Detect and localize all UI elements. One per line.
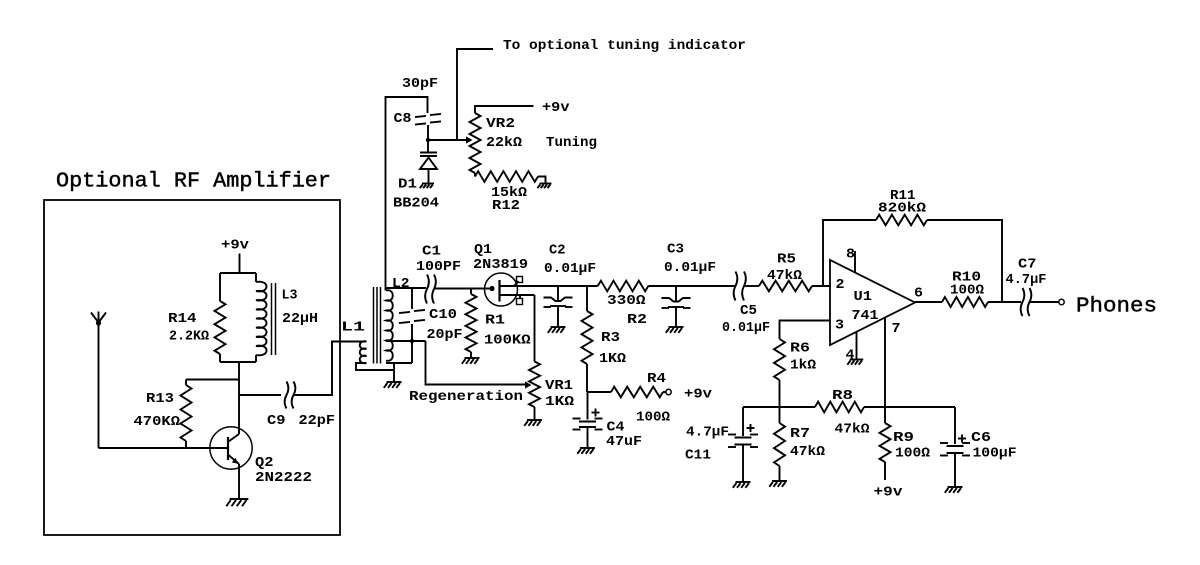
potentiometer VR1 [529, 362, 540, 421]
resistor R7 [774, 407, 785, 481]
ground R1 [462, 358, 480, 364]
svg-text:2: 2 [836, 277, 845, 293]
label +9v (R9) [874, 485, 904, 501]
svg-text:C3: C3 [667, 242, 684, 258]
resistor R2 [598, 281, 649, 292]
svg-text:U1: U1 [854, 289, 873, 305]
svg-text:4.7µF: 4.7µF [686, 425, 729, 441]
resistor R9 [880, 407, 891, 480]
wire Q1 source to VR1 [534, 295, 536, 362]
resistor R12 [475, 171, 546, 183]
label Regeneration [409, 389, 523, 405]
diode D1 BB204 [420, 140, 437, 183]
wire bottom rail left [743, 406, 815, 408]
wire L2 bottom [386, 362, 412, 364]
label 0.01uF (C2) [544, 261, 596, 277]
wire C8 top loop [386, 97, 428, 291]
label 100 ohm (R10) [950, 283, 985, 299]
label C4 [607, 420, 625, 436]
wire C9 to L1 [294, 342, 367, 396]
transistor Q2 [210, 427, 252, 499]
transistor Q1 2N3819 [485, 273, 535, 306]
svg-text:R7: R7 [790, 426, 810, 442]
label R14 [168, 311, 197, 327]
svg-text:30pF: 30pF [402, 76, 438, 92]
svg-text:R12: R12 [492, 198, 520, 214]
label L1 [341, 320, 365, 336]
svg-text:R8: R8 [832, 388, 853, 404]
label 2N2222 [255, 470, 312, 486]
resistor R1 [466, 289, 477, 359]
svg-text:R5: R5 [777, 252, 796, 268]
label C3 [667, 242, 684, 258]
label 2N3819 [473, 257, 528, 273]
ground pin4 [847, 360, 863, 365]
svg-text:6: 6 [914, 286, 923, 302]
svg-text:R13: R13 [146, 391, 174, 407]
svg-text:470KΩ: 470KΩ [134, 414, 181, 430]
label 47k ohm (R8) [835, 422, 871, 438]
wire C1 to gate [434, 288, 491, 290]
svg-text:2N3819: 2N3819 [473, 257, 528, 273]
ground C6 [945, 487, 963, 493]
svg-text:47kΩ: 47kΩ [767, 268, 803, 284]
svg-text:7: 7 [892, 321, 901, 337]
capacitor C4 [573, 392, 603, 448]
svg-text:VR2: VR2 [486, 116, 515, 132]
wire collector to C9 [239, 394, 281, 396]
label +9v (R4) [684, 387, 713, 403]
wire to tuning indicator [457, 49, 493, 140]
ground L2 [384, 382, 402, 388]
label 0.01uF (C3) [664, 260, 716, 276]
svg-text:Q1: Q1 [474, 242, 492, 258]
label 22pF [299, 413, 336, 429]
label 820k ohm [878, 201, 927, 217]
svg-text:L2: L2 [392, 276, 410, 292]
svg-text:47kΩ: 47kΩ [835, 422, 871, 438]
resistor R5 [759, 281, 812, 292]
label C8 [394, 111, 412, 127]
pin 7 wire [884, 318, 886, 408]
svg-text:2.2KΩ: 2.2KΩ [169, 329, 210, 345]
wire C7 to phones [1030, 299, 1064, 304]
optional RF amplifier enclosure box [44, 200, 340, 535]
svg-text:741: 741 [852, 308, 879, 324]
label Phones [1076, 295, 1157, 319]
svg-text:1kΩ: 1kΩ [790, 358, 817, 374]
wire L2 to C1 [386, 287, 427, 289]
ground C3 [666, 327, 684, 333]
ground C4 [577, 448, 595, 454]
label R7 [790, 426, 810, 442]
label 15k ohm [491, 185, 528, 201]
label R9 [893, 430, 914, 446]
svg-text:C1: C1 [422, 244, 441, 260]
ground VR1 [524, 420, 542, 426]
svg-text:100Ω: 100Ω [895, 446, 931, 462]
node C8/D1/VR2 [426, 136, 473, 143]
label C6 [971, 430, 991, 446]
inductor L3 [256, 273, 267, 362]
label 100K ohm [484, 333, 531, 349]
label Q2 [255, 455, 274, 471]
wire collector drop [238, 362, 240, 434]
label 1K ohm (VR1) [545, 394, 575, 410]
label 47k ohm (R7) [790, 444, 826, 460]
svg-text:1KΩ: 1KΩ [545, 394, 575, 410]
capacitor C6 [940, 407, 970, 487]
svg-text:100PF: 100PF [416, 259, 461, 275]
svg-text:R14: R14 [168, 311, 197, 327]
svg-text:47kΩ: 47kΩ [790, 444, 826, 460]
svg-text:+9v: +9v [221, 238, 250, 254]
svg-text:Q2: Q2 [255, 455, 274, 471]
label 20pF [427, 327, 463, 343]
label R2 [627, 312, 647, 328]
svg-text:100µF: 100µF [973, 446, 1017, 462]
label +9v (RF amp) [221, 238, 250, 254]
label R8 [832, 388, 853, 404]
svg-text:L3: L3 [282, 288, 298, 304]
label 100 ohm (R9) [895, 446, 931, 462]
label U1 [854, 289, 873, 305]
label 22uH [282, 311, 318, 327]
svg-text:100KΩ: 100KΩ [484, 333, 531, 349]
wire Q1 drain rail [516, 285, 598, 287]
svg-text:100Ω: 100Ω [636, 410, 671, 426]
svg-text:R4: R4 [647, 371, 666, 387]
potentiometer VR2 [470, 113, 481, 173]
label 741 [852, 308, 879, 324]
label R13 [146, 391, 174, 407]
wire pin3 to R6 [780, 321, 831, 340]
svg-text:To optional tuning indicator: To optional tuning indicator [503, 38, 746, 54]
label 1k ohm (R6) [790, 358, 817, 374]
svg-text:0.01µF: 0.01µF [664, 260, 716, 276]
svg-text:R9: R9 [893, 430, 914, 446]
svg-text:3: 3 [835, 318, 844, 334]
inductor L1 [356, 341, 394, 370]
pin 4 wire [856, 332, 858, 360]
svg-text:C2: C2 [549, 243, 566, 259]
wire +9v to rail [239, 254, 241, 274]
capacitor C5 [734, 272, 746, 301]
svg-text:0.01µF: 0.01µF [722, 320, 770, 336]
svg-text:D1: D1 [398, 177, 417, 193]
label 330 ohm [607, 293, 646, 309]
ground Q2 emitter [226, 499, 248, 506]
ground D1 [420, 184, 434, 189]
pin number 7 [892, 321, 901, 337]
svg-text:Tuning: Tuning [546, 135, 597, 151]
wire pin6 out [915, 301, 942, 303]
label C7 [1018, 257, 1037, 273]
label 100uF [973, 446, 1017, 462]
svg-text:+9v: +9v [684, 387, 713, 403]
pin number 8 [846, 247, 855, 263]
capacitor C9 [285, 382, 296, 409]
core lines L3 [272, 283, 276, 355]
svg-text:R6: R6 [790, 341, 810, 357]
svg-text:R3: R3 [601, 330, 620, 346]
resistor R6 [774, 339, 785, 407]
pin number 3 [835, 318, 844, 334]
label 30pF [402, 76, 438, 92]
wire R5 to pin2 [812, 285, 830, 287]
capacitor C7 [1021, 288, 1032, 316]
label C10 [429, 307, 457, 323]
wire VR2 top to +9v [475, 106, 534, 113]
op-amp U1 741 triangle [830, 260, 915, 345]
label 470K ohm [134, 414, 181, 430]
node L2 tap [386, 339, 426, 343]
label BB204 [393, 196, 439, 212]
wire bottom rail R14/L3 [220, 361, 256, 363]
resistor R14 [215, 273, 226, 362]
label 100PF [416, 259, 461, 275]
pin 8 stub [854, 251, 856, 272]
label VR2 [486, 116, 515, 132]
ground C11 [733, 482, 751, 488]
label 1K ohm (R3) [599, 351, 627, 367]
label 100 ohm (R4) [636, 410, 671, 426]
svg-text:1KΩ: 1KΩ [599, 351, 627, 367]
wire bottom rail right [864, 406, 955, 408]
label Tuning [546, 135, 597, 151]
wire L2 ground drop [393, 363, 395, 382]
capacitor C11 [728, 407, 758, 482]
wire antenna to Q2 base [99, 447, 229, 449]
svg-text:22pF: 22pF [299, 413, 336, 429]
svg-text:20pF: 20pF [427, 327, 463, 343]
label 0.01uF (C5) [722, 320, 770, 336]
core lines L1/L2 [374, 287, 381, 364]
label R5 [777, 252, 796, 268]
label R11 [890, 188, 916, 204]
label 4.7uF (C11) [686, 425, 729, 441]
label VR1 [545, 378, 573, 394]
svg-text:C6: C6 [971, 430, 991, 446]
svg-text:C5: C5 [740, 303, 757, 319]
label 47k ohm (R5) [767, 268, 803, 284]
label 47uF [606, 434, 642, 450]
svg-text:47uF: 47uF [606, 434, 642, 450]
svg-text:820kΩ: 820kΩ [878, 201, 927, 217]
label C9 [267, 413, 286, 429]
svg-text:R2: R2 [627, 312, 647, 328]
label R12 [492, 198, 520, 214]
svg-text:+9v: +9v [874, 485, 904, 501]
svg-text:22kΩ: 22kΩ [486, 135, 523, 151]
label R1 [485, 313, 505, 329]
label D1 [398, 177, 417, 193]
wire R3 to R4 [587, 391, 611, 393]
wire top rail R14/L3 [220, 272, 256, 274]
label 2.2K ohm [169, 329, 210, 345]
label C11 [685, 448, 711, 464]
label L3 [282, 288, 298, 304]
svg-text:Phones: Phones [1076, 295, 1157, 319]
svg-text:4.7µF: 4.7µF [1006, 272, 1047, 288]
svg-text:R1: R1 [485, 313, 505, 329]
capacitor C1 [425, 275, 436, 304]
svg-text:22µH: 22µH [282, 311, 318, 327]
svg-text:0.01µF: 0.01µF [544, 261, 596, 277]
svg-text:L1: L1 [341, 320, 365, 336]
label Optional RF Amplifier [56, 170, 331, 194]
svg-text:330Ω: 330Ω [607, 293, 646, 309]
wire R2 to C5 [648, 285, 735, 287]
svg-text:C10: C10 [429, 307, 457, 323]
wire regeneration [426, 341, 532, 389]
svg-text:C9: C9 [267, 413, 286, 429]
pin number 2 [836, 277, 845, 293]
ground R7 [769, 481, 787, 487]
wire feedback [823, 220, 1002, 302]
wire C5 to R5 [744, 285, 759, 287]
svg-text:C11: C11 [685, 448, 711, 464]
resistor R4 [611, 387, 671, 398]
capacitor C10 20pF [399, 288, 425, 363]
label To optional tuning indicator [503, 38, 746, 54]
svg-text:+9v: +9v [542, 100, 570, 116]
label R3 [601, 330, 620, 346]
label L2 [392, 276, 410, 292]
label C2 [549, 243, 566, 259]
svg-text:VR1: VR1 [545, 378, 573, 394]
ground R12 [537, 184, 551, 189]
svg-text:Regeneration: Regeneration [409, 389, 523, 405]
svg-text:2N2222: 2N2222 [255, 470, 312, 486]
ground C2 [548, 327, 566, 333]
svg-text:BB204: BB204 [393, 196, 439, 212]
pin number 6 [914, 286, 923, 302]
label C5 [740, 303, 757, 319]
inductor L2 [386, 290, 393, 361]
wire R10 to C7 [988, 301, 1021, 303]
pin number 4 [846, 348, 855, 364]
resistor R8 [815, 402, 864, 413]
label Q1 [474, 242, 492, 258]
label R10 [952, 270, 981, 286]
resistor R13 [181, 380, 240, 449]
capacitor C3 [662, 286, 691, 327]
label 22k ohm [486, 135, 523, 151]
svg-text:100Ω: 100Ω [950, 283, 985, 299]
svg-text:8: 8 [846, 247, 855, 263]
resistor R3 [582, 286, 593, 392]
svg-text:Optional RF Amplifier: Optional RF Amplifier [56, 170, 331, 194]
capacitor C2 [544, 286, 573, 327]
label +9v (VR2) [542, 100, 570, 116]
resistor R10 [942, 297, 988, 307]
antenna [91, 312, 106, 449]
label R6 [790, 341, 810, 357]
resistor R11 [876, 215, 927, 226]
label R4 [647, 371, 666, 387]
svg-text:C7: C7 [1018, 257, 1037, 273]
label 4.7uF (C7) [1006, 272, 1047, 288]
capacitor C8 30pF variable [415, 114, 441, 140]
label C1 [422, 244, 441, 260]
svg-text:C8: C8 [394, 111, 412, 127]
